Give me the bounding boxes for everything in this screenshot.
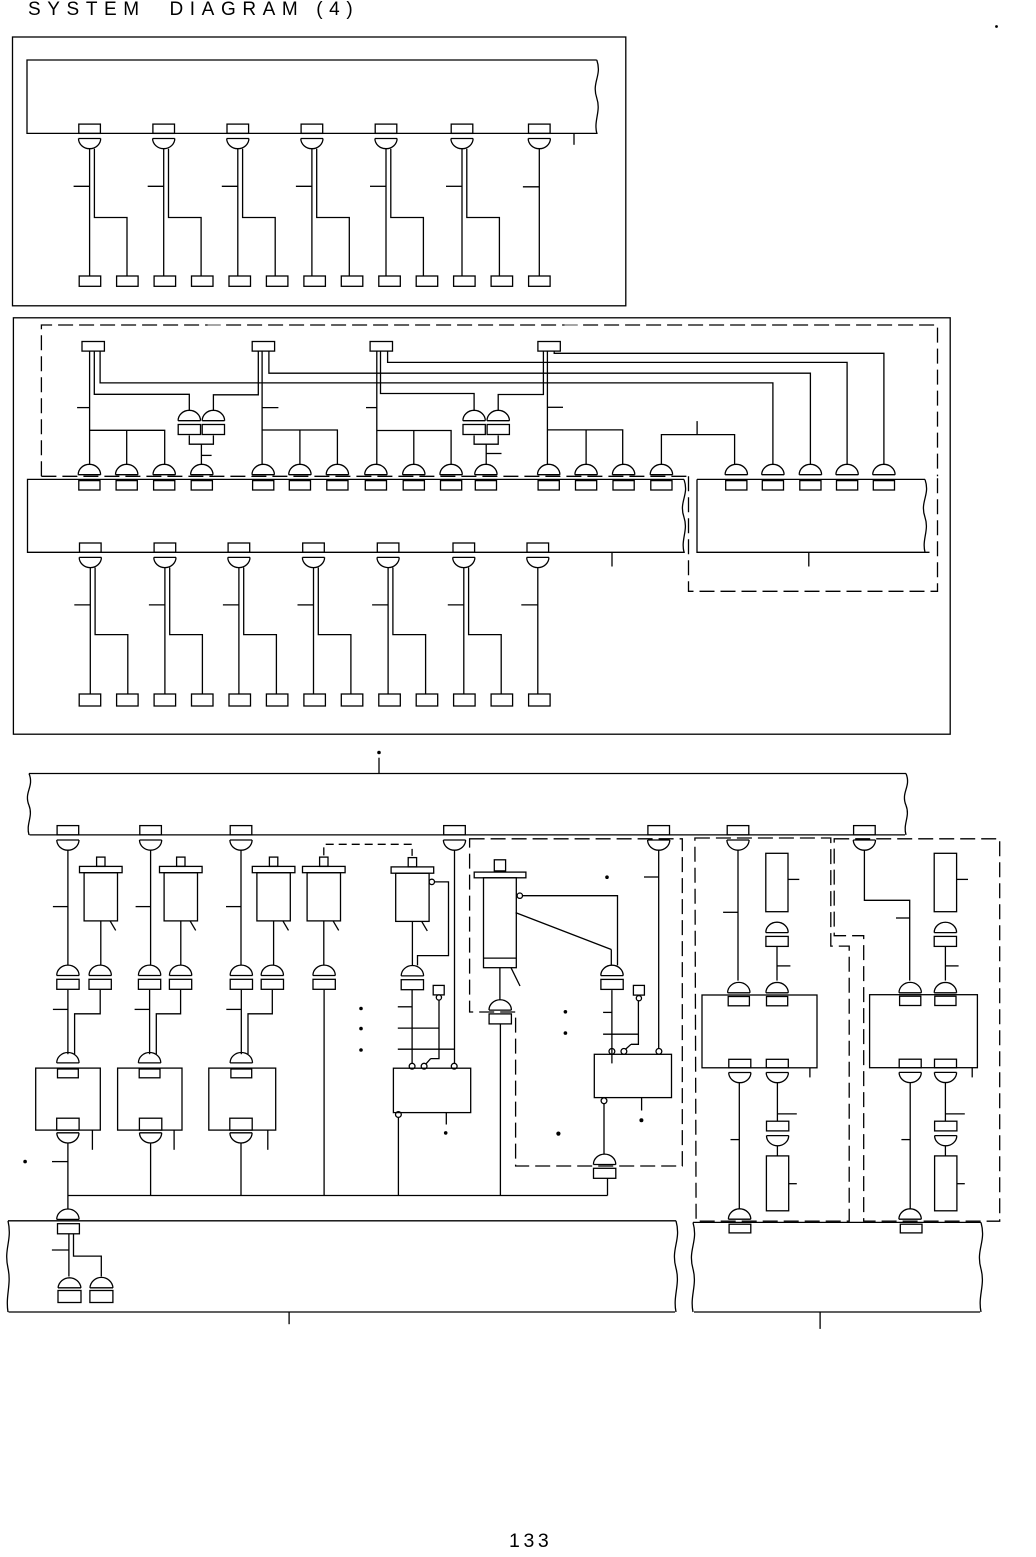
connector CN215 on IC201 [377, 543, 399, 568]
pin CN403 on output board B [899, 1209, 922, 1233]
pin 12 on IC201 [538, 464, 560, 490]
connector CN301 on bus board [57, 826, 79, 851]
connector CN105 on U101 [375, 124, 397, 149]
transformer T305 [391, 858, 434, 931]
pad terminal P1-3 [154, 276, 176, 286]
wire FL1 output to pin4 [189, 435, 213, 464]
pad terminal P2-7 [304, 694, 326, 706]
connector CN305 on bus board [648, 826, 670, 851]
wire pair from CN212 [149, 568, 203, 695]
bead L301a [57, 965, 79, 989]
wire pair from CN215 [372, 568, 426, 695]
stub pin on U101 bottom edge [573, 133, 575, 144]
connector CN214 on IC201 [302, 543, 324, 568]
wire pair from CN213 [223, 568, 277, 695]
pad terminal P1-10 [416, 276, 438, 286]
output board A (long box) [7, 1221, 678, 1312]
pin 4 on IC201 [191, 464, 213, 490]
transformer T306 [474, 860, 526, 986]
pad terminal P2-4 [192, 694, 214, 706]
connector CN103 on U101 [227, 124, 249, 149]
wire H3 left to pin8 with branch [366, 351, 451, 464]
bead L303a [230, 965, 252, 989]
sensor S1 square [433, 985, 444, 1000]
bead B1 [934, 922, 956, 946]
wire pair from CN101 [74, 149, 127, 276]
wire H4 left to filter FL2 [498, 351, 543, 410]
dashed block PS unit A [695, 838, 849, 1221]
pin on module M303 bottom [230, 1118, 252, 1143]
connector CN106 on U101 [451, 124, 473, 149]
connector CN102 on U101 [153, 124, 175, 149]
bead L307 [601, 965, 623, 989]
connector CN302 on bus board [140, 826, 162, 851]
wire IC302 a down to out [901, 1083, 910, 1209]
wires beads to module M303 [226, 990, 272, 1054]
pin on IC302 bottom a [899, 1059, 921, 1082]
transformer T302 [160, 857, 203, 930]
relay RL2 pins [609, 1049, 662, 1055]
bead L302a [138, 965, 160, 989]
connector CN107 on U101 [528, 124, 550, 149]
bead L306 [489, 1000, 511, 1024]
wire H2 left to filter FL1 [213, 351, 258, 410]
sensor S2 square [633, 985, 644, 1000]
pickup circle on T305 [429, 879, 434, 884]
wire bead B2 to coil B2 [944, 1146, 946, 1156]
wire L304 to bus [323, 990, 325, 1196]
pin 14 on IC201 [612, 464, 634, 490]
dots in SW unit [564, 1010, 568, 1035]
bead L305 [401, 966, 423, 990]
gray dash marks on dashed edge [208, 324, 578, 326]
wire H1 right bus to IC202 pin2 [100, 351, 773, 464]
wire from CN107 [523, 149, 539, 276]
wire H1 mid to filter FL1 [94, 351, 189, 410]
wire H2 mid to pin5 with branch [262, 351, 337, 464]
dashed block boundary (upper) [41, 325, 937, 476]
dashed link T304 to T305 [324, 844, 412, 856]
pad terminal P1-1 [79, 276, 101, 286]
pin 15 on IC201 [650, 464, 672, 490]
header connector CN203 [370, 342, 392, 352]
section 1 main unit box U101 [27, 60, 598, 133]
wire pair from CN102 [148, 149, 201, 276]
pin 8 on IC201 [365, 464, 387, 490]
pad terminal P2-13 [529, 694, 551, 706]
connector CN211 on IC201 [79, 543, 101, 568]
wire CN306 down to IC301 [723, 850, 738, 980]
wire pair from CN103 [222, 149, 275, 276]
wire H2 right bus to IC202 pin3 [269, 351, 811, 464]
pin on module M303 top [230, 1053, 252, 1078]
connector CN307 on bus board [853, 826, 875, 851]
pad terminal P2-8 [341, 694, 363, 706]
pin on IC301 top a [728, 982, 750, 1005]
wire bus to CN401 [67, 1196, 69, 1210]
pin 3 on IC202 [799, 464, 821, 490]
wire H4 mid to pin12 with branch [547, 351, 622, 464]
coil rect B2 [935, 1156, 965, 1211]
rung ticks left of RL1 [398, 1028, 454, 1049]
wires beads to module M301 [53, 990, 100, 1054]
stub below output board B [819, 1312, 821, 1329]
dashed bottom edge (upper block) [41, 475, 688, 477]
pad terminal P1-9 [379, 276, 401, 286]
wire L305 to relay RL1 [398, 990, 412, 1063]
pad terminal P2-10 [416, 694, 438, 706]
stub below module M301 [91, 1130, 93, 1150]
pin 5 on IC201 [252, 464, 274, 490]
module M303 box [209, 1068, 276, 1130]
stub below IC201 [611, 552, 613, 566]
bead L402 [90, 1277, 113, 1302]
wire from T305 circle loop [418, 882, 449, 966]
wire L308 to bus [607, 1178, 609, 1195]
pad terminal P1-5 [229, 276, 251, 286]
pin on module M302 top [138, 1053, 160, 1078]
relay RL1 box [393, 1068, 470, 1112]
connector CN217 on IC201 [527, 543, 549, 568]
wire CN305 down to RL2 [644, 850, 659, 1048]
pin on IC301 bottom b [766, 1059, 788, 1082]
connector CN303 on bus board [230, 826, 252, 851]
wire H3 right bus to IC202 pin4 [388, 351, 847, 464]
wire pair from CN211 [74, 568, 128, 695]
wire pair from CN216 [448, 568, 501, 695]
connector CN304 on bus board [443, 826, 465, 851]
wire L306 to bus [499, 1024, 501, 1196]
wire bead A2 to coil A2 [776, 1146, 778, 1156]
bead A2 reversed [767, 1121, 789, 1146]
header connector CN201 [82, 342, 104, 352]
bead B2 reversed [935, 1121, 957, 1146]
connector CN104 on U101 [301, 124, 323, 149]
wire T303 down [273, 921, 275, 965]
header connector CN202 [252, 342, 274, 352]
bead L308 [593, 1154, 615, 1178]
pad terminal P1-11 [454, 276, 476, 286]
dashed block SW unit [470, 839, 683, 1166]
pin CN401 on output board A [57, 1209, 80, 1234]
pad terminal P1-7 [304, 276, 326, 286]
wires beads to module M302 [135, 990, 181, 1054]
pad terminal P1-6 [266, 276, 288, 286]
wire T304 down [323, 921, 325, 965]
relay RL1 bottom pin and wire to bus [396, 1112, 402, 1196]
output board B (long box) [691, 1222, 982, 1312]
pin 5 on IC202 [873, 464, 895, 490]
wire pair from CN105 [370, 149, 423, 276]
relay RL1 pins [409, 1063, 457, 1069]
stub and dot below RL2 [639, 1098, 643, 1123]
pad terminal P2-9 [379, 694, 401, 706]
pad terminal P2-6 [266, 694, 288, 706]
pad terminal P1-2 [117, 276, 139, 286]
pickup circle on T306 [517, 893, 522, 898]
connector CN212 on IC201 [154, 543, 176, 568]
stub below module M303 [267, 1130, 269, 1150]
bead L304 [313, 965, 335, 989]
pin on module M301 top [57, 1053, 79, 1078]
connector CN216 on IC201 [453, 543, 475, 568]
wire pair from CN106 [446, 149, 499, 276]
stub below IC301 [809, 1068, 811, 1078]
wire pair from CN214 [298, 568, 351, 695]
bead L303b [261, 965, 283, 989]
header connector CN204 [538, 342, 560, 352]
pin CN402 on output board B [728, 1209, 750, 1233]
wire IC301 b down [777, 1083, 796, 1121]
section 2 outer frame [13, 318, 950, 734]
dot left of bus [23, 1160, 27, 1164]
wire CN304 down to RL1 [454, 850, 456, 1063]
stub and dot above main bus board [377, 751, 381, 774]
pin on IC302 top b [934, 982, 956, 1005]
module M302 box [118, 1068, 182, 1130]
diagonal wire T306 to bead L307 [516, 913, 612, 966]
main bus board (long box) [27, 774, 907, 835]
dot below left [556, 1132, 560, 1136]
transformer T303 [252, 857, 295, 930]
pad terminal P1-12 [491, 276, 512, 286]
dot near T306 [605, 875, 609, 879]
wire T301 down [100, 921, 102, 965]
wire CN302 down [136, 850, 151, 965]
connector CN101 on U101 [79, 124, 101, 149]
wire CN301 down [53, 850, 68, 965]
filter FL2 element a [463, 410, 485, 434]
pin 13 on IC201 [575, 464, 597, 490]
wire from CN217 [521, 568, 538, 695]
pin 1 on IC202 [725, 464, 747, 490]
pin 10 on IC201 [440, 464, 462, 490]
wire T306 down [499, 968, 501, 1000]
wire CN307 down to IC302 [864, 850, 909, 980]
pin on IC302 top a [899, 982, 921, 1005]
pad terminal P1-13 [529, 276, 551, 286]
pad terminal P2-11 [454, 694, 476, 706]
pad terminal P2-1 [79, 694, 101, 706]
pin on module M302 bottom [139, 1118, 161, 1143]
filter FL1 element b [202, 410, 224, 434]
wire IC301 a down to out [731, 1083, 740, 1209]
wire H4 right bus to IC202 pin5 [554, 351, 884, 464]
pin on IC301 top b [766, 982, 788, 1005]
wire pair from CN104 [296, 149, 349, 276]
switch arm S2 to RL2 [625, 1001, 638, 1050]
coil rect B [934, 853, 968, 911]
pad terminal P1-4 [192, 276, 214, 286]
pin 2 on IC202 [762, 464, 784, 490]
section 1 outer frame [13, 37, 626, 306]
transformer T304 [303, 857, 346, 930]
pin 7 on IC201 [326, 464, 348, 490]
pad terminal P1-8 [341, 276, 363, 286]
relay RL2 bottom pin [601, 1098, 607, 1154]
pin 9 on IC201 [403, 464, 425, 490]
sub board IC202 box [697, 479, 930, 552]
pin 4 on IC202 [836, 464, 858, 490]
wire CN401 to beads [52, 1234, 101, 1277]
pin 1 on IC201 [78, 464, 100, 490]
dashed block boundary (right lower) [689, 476, 938, 591]
bead L401 [58, 1278, 81, 1303]
wire CN303 down [226, 850, 241, 965]
connector CN306 on bus board [727, 826, 749, 851]
wire from T306 circle to bead L307 [523, 896, 618, 966]
pad terminal P2-2 [117, 694, 139, 706]
wire T302 down [180, 921, 182, 965]
jumper wire pin15 to IC202 pin1 [661, 421, 734, 464]
module M301 box [36, 1068, 101, 1130]
wire IC302 b down [945, 1083, 964, 1121]
connector CN213 on IC201 [228, 543, 250, 568]
wire L307 to relay RL2 [603, 990, 638, 1063]
power module IC301 box [702, 995, 817, 1068]
main board IC201 box [28, 479, 686, 552]
filter FL1 element a [178, 410, 200, 434]
bead L301b [89, 965, 111, 989]
wire bead A1 to IC301 [777, 947, 790, 981]
pin 2 on IC201 [116, 464, 138, 490]
wire H3 mid to filter FL2 [381, 351, 475, 410]
dashed block PS unit B [834, 839, 1000, 1221]
pin on IC301 bottom a [729, 1059, 751, 1082]
wire module M303 to bus [240, 1143, 242, 1196]
pad terminal P2-12 [491, 694, 512, 706]
wire module M302 to bus [150, 1143, 152, 1196]
switch arm S1 to RL1 [426, 1000, 439, 1064]
stub below IC202 [808, 552, 810, 566]
pin 6 on IC201 [289, 464, 311, 490]
ground bus wire [68, 1195, 608, 1197]
wire H1 left to pin1 with branch [77, 351, 165, 464]
coil rect A2 [766, 1156, 796, 1211]
pin on module M301 bottom [57, 1118, 79, 1143]
wire module M301 to bus [52, 1143, 68, 1196]
pad terminal P2-3 [154, 694, 176, 706]
stub below output board A [288, 1312, 290, 1324]
wire FL2 output to pin11 [474, 435, 501, 464]
bead L302b [169, 965, 191, 989]
stub below IC302 [971, 1068, 973, 1078]
transformer T301 [80, 857, 123, 930]
pin 3 on IC201 [153, 464, 175, 490]
ellipsis dots [359, 1007, 363, 1052]
stub below module M302 [173, 1130, 175, 1150]
pin on IC302 bottom b [934, 1059, 956, 1082]
filter FL2 element b [487, 410, 509, 434]
bead A1 [766, 922, 788, 946]
coil rect A [766, 853, 800, 911]
relay RL2 box [594, 1054, 671, 1097]
wire bead B1 to IC302 [945, 947, 958, 981]
pin 11 on IC201 [475, 464, 497, 490]
pad terminal P2-5 [229, 694, 251, 706]
power module IC302 box [870, 995, 978, 1068]
wire T305 down [411, 921, 413, 965]
mark top right [995, 25, 998, 28]
stub and dot below RL1 [444, 1113, 448, 1135]
